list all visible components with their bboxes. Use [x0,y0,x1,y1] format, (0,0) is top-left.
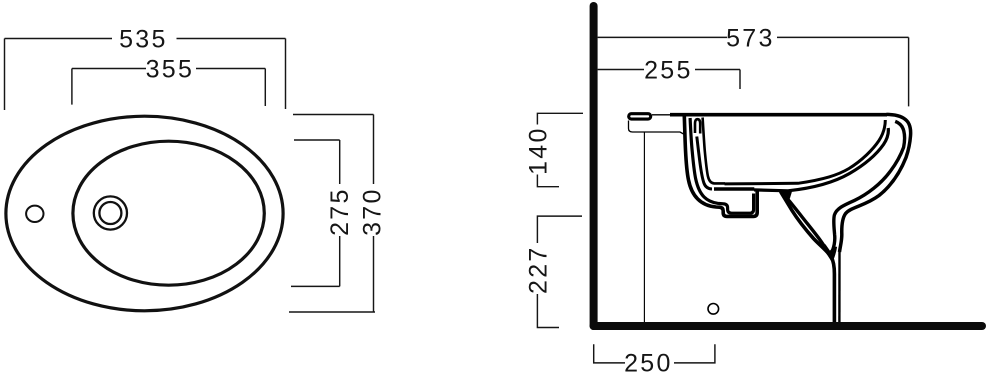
bowl underside line B [754,128,888,191]
pedestal fixing hole [708,304,719,315]
svg-text:355: 355 [146,56,195,84]
strut right edge S2 to notch bottom [785,195,833,253]
svg-text:573: 573 [726,24,775,52]
inner crescent curve C + wave + hairpin [833,121,905,250]
dimension 370 [289,115,375,313]
wall line [590,6,598,326]
left bowl wall M3 (to waterline) [703,118,725,184]
drain outer circle [94,196,127,229]
left bowl wall outer E + trap outline [684,116,757,216]
basin floor thick line [714,187,754,191]
rim top line [670,113,887,117]
svg-text:140: 140 [524,126,552,175]
leg right edge [838,251,840,322]
dimension 250 [594,344,715,363]
dimension 255 [598,70,740,90]
outer back curve D + leg right edge [840,114,911,252]
dimension 275 [291,140,340,286]
hidden back edge of pedestal [643,132,645,322]
bidet outer rim ellipse [6,116,283,311]
faucet hole capsule (section) [629,114,651,119]
strut left edge S1 to leg left edge [781,192,835,323]
left bowl wall M1 + trap inner outline [690,118,754,213]
svg-text:535: 535 [119,26,168,54]
notch bottom fill [824,246,835,258]
strut vertex fill [780,189,793,198]
svg-text:227: 227 [524,245,552,294]
rim hook (inner lip) [695,119,700,133]
dimension 355 [72,69,265,107]
svg-text:275: 275 [326,187,354,236]
dimension 227 [537,216,582,327]
ledge thin line [652,114,670,116]
dimension 535 [5,39,286,111]
deck outline [629,121,685,135]
left bowl wall M2 [697,137,712,190]
svg-text:255: 255 [644,57,693,85]
faucet hole [26,206,43,222]
svg-text:370: 370 [358,187,386,236]
dimension 140 [537,113,583,186]
bidet inner basin ellipse [73,141,264,285]
floor line [594,322,982,330]
bowl interior curve A (basin bottom up the back) [725,120,886,184]
drain inner circle [99,202,121,224]
dimension 573 [598,37,909,106]
svg-text:250: 250 [624,350,673,374]
